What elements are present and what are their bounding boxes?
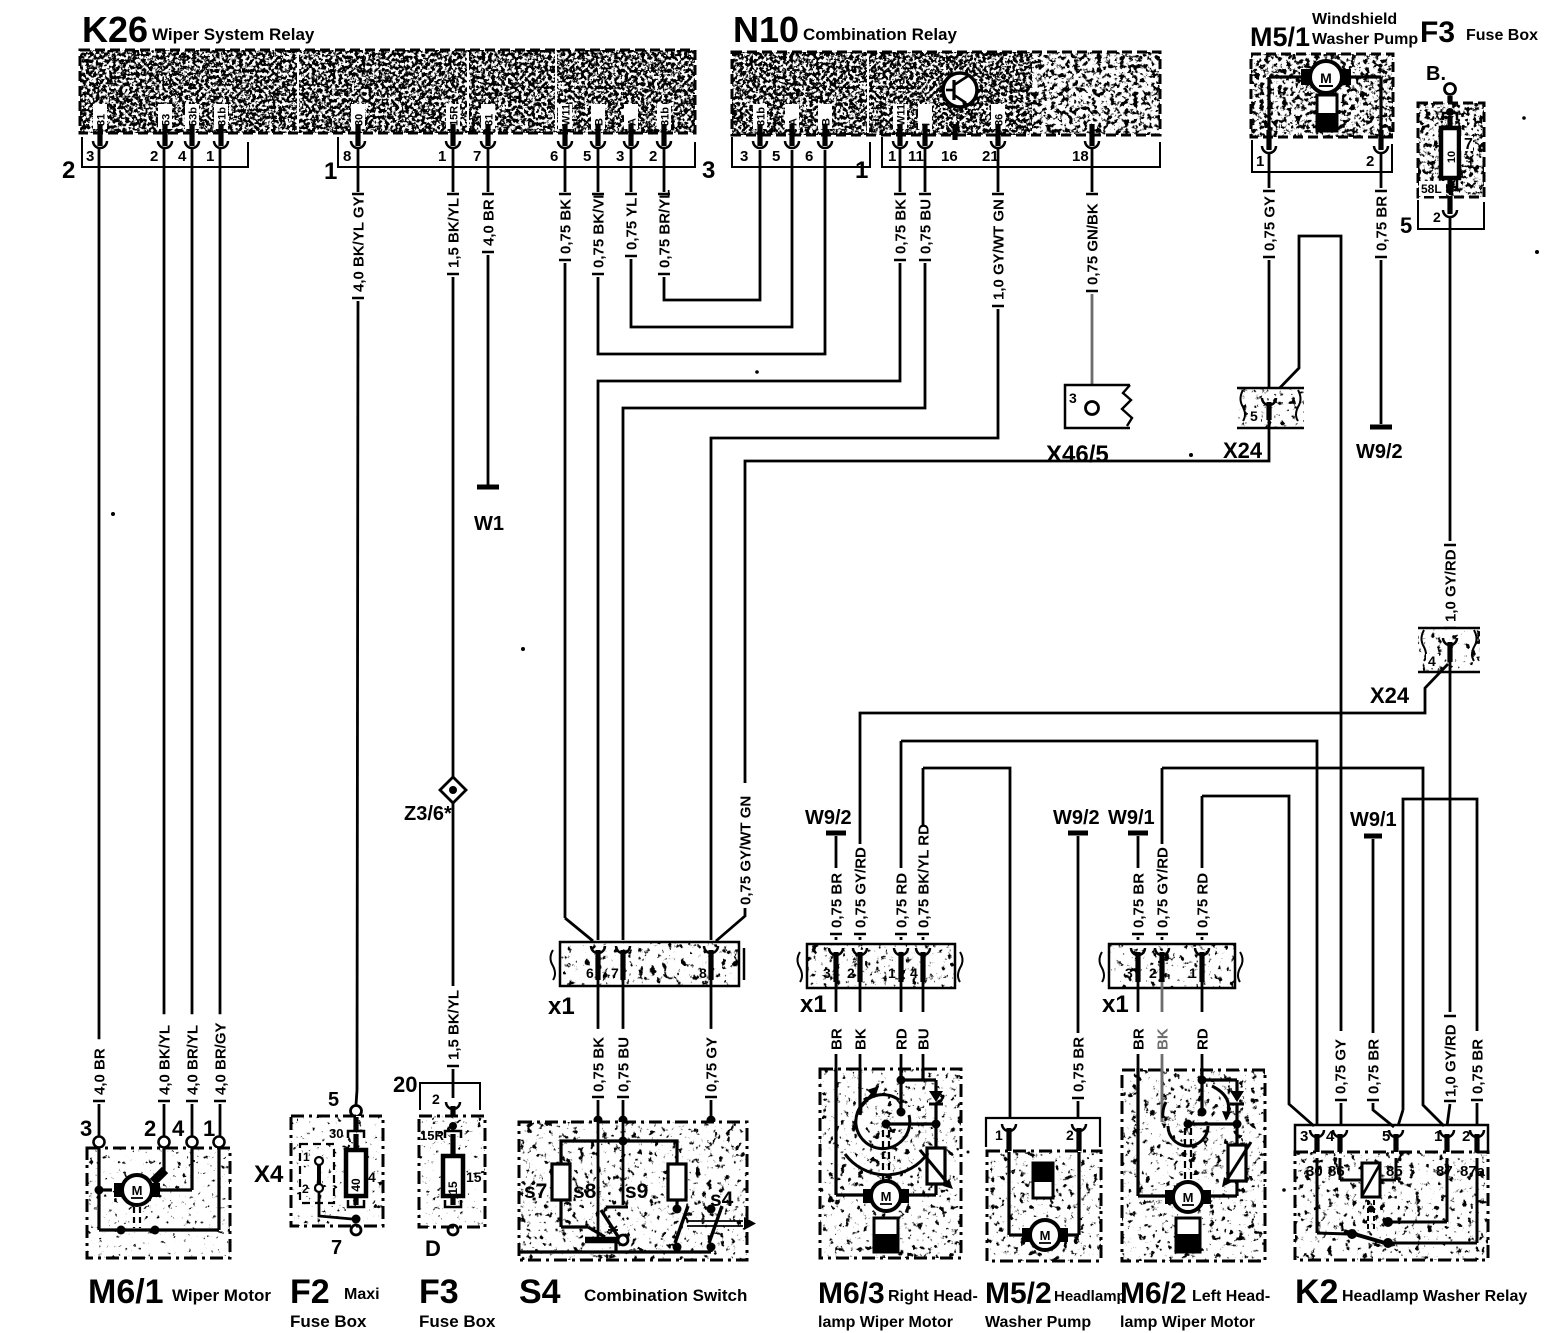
svg-text:W9/1: W9/1 [1350, 809, 1397, 831]
svg-text:Combination Switch: Combination Switch [584, 1286, 747, 1305]
headlamp wiper motor M6/2 body [1122, 1070, 1265, 1261]
svg-text:0,75 YL: 0,75 YL [624, 198, 641, 250]
wire 4,0 BK/YL GY K26 pin 8 to maxi fuse box F2 [351, 148, 368, 1105]
wire 1,5 BK/YL K26 pin 1 to fuse box F3 [446, 148, 463, 779]
motor shaft M6/3 [883, 1130, 889, 1180]
motor symbol M6/1 [114, 1170, 165, 1228]
svg-text:D: D [425, 1236, 441, 1261]
wiper track arc in M6/2 [1163, 1102, 1208, 1146]
svg-text:X4: X4 [254, 1161, 284, 1188]
svg-text:s8: s8 [573, 1180, 597, 1203]
relay N10 pin terminal I [918, 104, 933, 148]
relay K26 pin terminal 30 [351, 104, 366, 148]
svg-text:M: M [132, 1183, 143, 1198]
svg-text:M: M [1320, 70, 1332, 86]
wire 0,75 GY connector x1 into switch S4 [704, 980, 721, 1125]
svg-text:RD: RD [1195, 1028, 1212, 1050]
relay K2 pin 1 terminal [1440, 1130, 1454, 1158]
transistor symbol inside N10 [943, 70, 977, 110]
svg-text:F2: F2 [290, 1273, 330, 1311]
component label F3 [419, 1273, 496, 1331]
connector X24 pin 4 [1418, 628, 1480, 672]
wire relay K2 pin 5 to pin 2 loop [1398, 799, 1487, 1126]
svg-text:M: M [1040, 1228, 1051, 1243]
relay K2 armature link [1368, 1200, 1375, 1230]
svg-text:4,0 BK/YL: 4,0 BK/YL [157, 1025, 174, 1095]
connector x1 (M6/2) pin 2 terminal [1149, 948, 1169, 982]
svg-text:5: 5 [1250, 408, 1258, 424]
wire RD connector x1 into motor M6/2 [1195, 982, 1212, 1068]
relay K2 terminal labels [1306, 1163, 1486, 1180]
stray scan marks [111, 116, 1539, 1192]
switch S4 internal top rail [561, 1137, 677, 1165]
ground W1 [474, 487, 504, 535]
relay K26 pin terminal A [624, 104, 639, 148]
svg-text:1: 1 [206, 148, 214, 165]
svg-text:W9/2: W9/2 [1356, 441, 1403, 463]
connector x1 (S4) pin 8 terminal [699, 946, 718, 981]
svg-text:2: 2 [1366, 153, 1374, 170]
svg-text:3: 3 [86, 148, 94, 165]
relay K2 coil [1340, 1158, 1396, 1197]
relay K2 pin 5 terminal [1389, 1130, 1403, 1158]
motor M6/3 wiper contact BK [860, 1068, 879, 1108]
svg-text:3: 3 [823, 965, 831, 981]
relay K26 pin terminal 31b [657, 104, 672, 148]
fuse box F3 (bottom) body [419, 1116, 485, 1227]
wire 0,75 BR ground to connector x1 M6/3 pin 3 [829, 873, 846, 940]
svg-text:M6/1: M6/1 [88, 1273, 164, 1311]
motor M6/2 internal wiring RD [1198, 1068, 1238, 1117]
svg-text:2: 2 [144, 1116, 156, 1141]
svg-text:0,75 BR/YL: 0,75 BR/YL [657, 190, 674, 268]
svg-text:15: 15 [466, 1169, 482, 1185]
svg-text:0,75 GY: 0,75 GY [1333, 1039, 1350, 1094]
svg-text:Left Head-: Left Head- [1192, 1288, 1270, 1305]
svg-text:4: 4 [910, 965, 918, 981]
svg-text:M6/2: M6/2 [1120, 1277, 1187, 1310]
svg-text:53b: 53b [188, 107, 200, 126]
component label M6/1 [88, 1273, 271, 1311]
svg-text:x1: x1 [548, 993, 575, 1020]
wiper motor M6/1 internal wiring [95, 1148, 220, 1235]
connector x1 (M6/3) pin 3 terminal [823, 948, 843, 982]
ground W9/2 at M6/3 [805, 807, 852, 868]
svg-text:W11: W11 [561, 104, 573, 126]
washer pump M5/2 internal wiring [1009, 1152, 1079, 1235]
svg-text:K26: K26 [82, 9, 148, 50]
wire 4,0 BK/YL K26 to wiper motor M6/1 pin 2 [157, 148, 174, 1136]
svg-text:1: 1 [324, 158, 337, 185]
relay K2 pin 4 terminal [1333, 1130, 1347, 1158]
fuse box F3 connector bracket 20 [393, 1072, 480, 1110]
wire BK connector x1 into motor M6/3 [853, 982, 870, 1068]
relay K2 pin 2 terminal [1470, 1130, 1484, 1158]
wire 1,0 GY/WT GN N10 pin 21 to connector x1 pin 8 [711, 148, 1008, 940]
svg-text:4,0 BR/YL: 4,0 BR/YL [185, 1025, 202, 1095]
motor M6/3 internal wiring BR [836, 1068, 863, 1195]
svg-text:lamp Wiper Motor: lamp Wiper Motor [1120, 1314, 1255, 1331]
wire 4,0 BR K26 to wiper motor M6/1 pin 3 [92, 148, 109, 1136]
component label F2 [290, 1273, 380, 1331]
svg-text:Windshield: Windshield [1312, 11, 1397, 28]
svg-text:Headlamp: Headlamp [1054, 1288, 1126, 1305]
svg-text:BR: BR [1131, 1028, 1148, 1050]
connector X4 in F2 [300, 1144, 352, 1219]
component label M6/2 [1120, 1277, 1270, 1331]
svg-text:Fuse Box: Fuse Box [290, 1312, 367, 1331]
switch s4 actuating link arrow [687, 1217, 756, 1230]
connector x1 (M6/2) pin 1 terminal [1189, 948, 1209, 982]
wire 0,75 BR/YL K26 pin 2 to N10 pin 3 [657, 148, 761, 300]
rheostat in M6/2 [1211, 1142, 1251, 1196]
svg-text:BR: BR [829, 1028, 846, 1050]
svg-text:0,75 GY/RD: 0,75 GY/RD [1155, 847, 1172, 928]
svg-text:M: M [881, 1189, 892, 1204]
svg-text:Wiper System Relay: Wiper System Relay [152, 25, 315, 44]
svg-text:2: 2 [1433, 209, 1441, 225]
wire 0,75 BK N10 pin 1 to connector x1 pin 6 [598, 148, 910, 940]
svg-text:X24: X24 [1370, 683, 1410, 708]
svg-text:1: 1 [1189, 965, 1197, 981]
motor M6/2 wiper contact BK [1161, 1068, 1164, 1122]
svg-text:s7: s7 [524, 1180, 547, 1203]
relay N10 pin 16 stub [952, 124, 957, 140]
svg-text:lamp Wiper Motor: lamp Wiper Motor [818, 1314, 953, 1331]
svg-text:40: 40 [349, 1178, 363, 1192]
connector x1 (M6/3) pin 2 terminal [847, 948, 867, 982]
svg-text:15R: 15R [449, 106, 461, 126]
terminal B of fuse box F3 [1426, 63, 1456, 112]
svg-text:0,75 GY: 0,75 GY [1262, 196, 1279, 251]
wire 0,75 BK K26 pin 6 to connector x1 pin 6 [558, 148, 594, 941]
wire 0,75 BR ground to washer pump M5/2 pin 2 [1071, 1037, 1088, 1118]
svg-text:31b: 31b [756, 107, 768, 126]
wire 0,75 BK/VI K26 pin 5 to N10 pin 6 [591, 148, 826, 354]
wire 0,75 BU connector x1 into switch S4 [616, 980, 633, 1125]
svg-text:0,75 BR: 0,75 BR [1071, 1037, 1088, 1092]
svg-text:0,75 BR: 0,75 BR [1366, 1039, 1383, 1094]
relay K2 pin 3 terminal [1310, 1130, 1324, 1158]
svg-text:M5/1: M5/1 [1250, 22, 1310, 52]
wire 0,75 GY M5/1 pin 1 to connector X24 pin 5 [1262, 152, 1279, 394]
motor symbol M5/2 [1022, 1220, 1068, 1250]
component label S4 [519, 1273, 747, 1311]
relay K2 body [1295, 1152, 1488, 1260]
maxi fuse box F2 body [291, 1116, 383, 1226]
svg-text:0,75 GY/WT GN: 0,75 GY/WT GN [738, 796, 755, 905]
svg-text:0,75 BK: 0,75 BK [893, 199, 910, 254]
component label K2 [1295, 1273, 1527, 1311]
svg-text:0,75 BU: 0,75 BU [616, 1037, 633, 1092]
wire 0,75 BU inside S4 to wiper arm s9 [622, 1120, 625, 1205]
motor M6/2 diode branch [1184, 1080, 1245, 1145]
svg-text:W1: W1 [474, 513, 504, 535]
pump symbol M6/2 [1176, 1218, 1200, 1252]
connector X46/5 [1065, 385, 1132, 428]
svg-text:M6/3: M6/3 [818, 1277, 885, 1310]
svg-text:2: 2 [649, 148, 657, 165]
svg-text:87: 87 [1436, 1163, 1453, 1180]
svg-text:BU: BU [916, 1028, 933, 1050]
svg-text:2: 2 [150, 148, 158, 165]
wire 4,0 BR/GY K26 to wiper motor M6/1 pin 1 [213, 148, 230, 1136]
curved arrow in M6/2 [1212, 1086, 1231, 1121]
svg-text:1: 1 [855, 157, 868, 184]
washer pump M5/1 body [1251, 54, 1393, 137]
svg-text:W11: W11 [896, 104, 908, 126]
svg-text:0,75 GY: 0,75 GY [704, 1037, 721, 1092]
svg-text:BK: BK [1155, 1028, 1172, 1050]
relay N10 pin 18 terminal [1085, 124, 1099, 148]
rheostat in M6/3 [909, 1148, 953, 1195]
svg-text:4,0 BR: 4,0 BR [481, 199, 498, 246]
svg-text:X46/5: X46/5 [1046, 441, 1109, 468]
wire 0,75 RD connector x1 M6/3 pin 1 to relay K2 pin 3 [894, 741, 1318, 1126]
svg-text:1,0 GY/RD: 1,0 GY/RD [1443, 1024, 1460, 1097]
relay K26 pin terminal 15R [446, 104, 461, 148]
svg-text:4,0 BK/YL GY: 4,0 BK/YL GY [351, 196, 368, 292]
svg-text:8: 8 [699, 965, 707, 981]
switch labels s7 s8 s9 [524, 1180, 648, 1203]
svg-text:RD: RD [894, 1028, 911, 1050]
svg-text:F3: F3 [419, 1273, 459, 1311]
svg-text:0,75 RD: 0,75 RD [894, 873, 911, 928]
svg-text:7: 7 [1464, 136, 1473, 153]
svg-text:7: 7 [331, 1237, 342, 1259]
maxi fuse box F2 terminal 5 [328, 1089, 362, 1117]
svg-text:30: 30 [1306, 1163, 1323, 1180]
fuse 15A in fuse box F3 [420, 1122, 482, 1235]
svg-text:6: 6 [586, 965, 594, 981]
wire 0,75 BK inside S4 to wiper contact [597, 1120, 600, 1238]
svg-text:30: 30 [329, 1126, 343, 1141]
svg-text:1,5 BK/YL: 1,5 BK/YL [446, 198, 463, 268]
svg-text:15: 15 [446, 1181, 460, 1195]
svg-text:3: 3 [702, 157, 715, 184]
svg-text:2: 2 [432, 1091, 440, 1107]
svg-text:5: 5 [772, 148, 780, 165]
wire 0,75 GY/RD connector x1 M6/2 pin 2 to relay K2 pin 1 [1155, 768, 1445, 1126]
svg-text:Right Head-: Right Head- [888, 1288, 978, 1305]
relay K26 body [80, 50, 695, 133]
svg-text:2: 2 [1149, 965, 1157, 981]
wire 1,0 GY/RD X24 pin 4 to relay K2 pin 1 [1443, 662, 1460, 1126]
wire 0,75 BR M5/1 pin 2 to ground W9/2 [1374, 152, 1391, 424]
svg-text:W9/1: W9/1 [1108, 807, 1155, 829]
svg-text:S4: S4 [519, 1273, 561, 1311]
svg-text:31b: 31b [660, 107, 672, 126]
pump symbol M6/3 [874, 1218, 898, 1252]
ground W9/2 (right) [1356, 427, 1403, 463]
relay K2 switch [1317, 1158, 1477, 1248]
pump symbol M5/2 [1033, 1163, 1053, 1198]
svg-text:0,75 BR: 0,75 BR [829, 873, 846, 928]
ground W9/1 at M6/2 [1108, 807, 1155, 868]
connector x1 (M6/2) pin 3 terminal [1125, 948, 1145, 982]
svg-text:1,0 GY/WT GN: 1,0 GY/WT GN [991, 199, 1008, 300]
svg-text:8: 8 [343, 148, 351, 165]
relay K26 pin terminal W11 [558, 104, 573, 148]
wire 0,75 BU N10 pin 11 to connector x1 pin 7 [623, 148, 935, 940]
svg-text:F3: F3 [1420, 16, 1455, 49]
relay K26 pin terminal B [591, 104, 606, 148]
wire Z3/6 down to fuse box F3 pin 2 [446, 801, 463, 1098]
svg-text:86: 86 [1328, 1163, 1345, 1180]
motor M6/3 internal wiring BU with diode [882, 1068, 944, 1148]
relay K2 connector strip [1295, 1125, 1488, 1152]
svg-text:21: 21 [982, 148, 999, 165]
svg-text:4: 4 [172, 1116, 185, 1141]
windshield washer pump M5/1 label [1250, 11, 1418, 52]
connector x1 (S4) pin 7 terminal [611, 946, 630, 981]
wire 0,75 BR ground W9/1 to relay K2 pin 5 [1366, 1039, 1395, 1127]
svg-text:2: 2 [302, 1182, 309, 1196]
relay K26 pin terminal 31 [93, 104, 108, 148]
svg-text:N10: N10 [733, 9, 799, 50]
svg-text:5: 5 [583, 148, 591, 165]
svg-text:0,75 GY/RD: 0,75 GY/RD [853, 847, 870, 928]
svg-text:K2: K2 [1295, 1273, 1338, 1311]
svg-text:4: 4 [1428, 653, 1436, 669]
connector bracket K26-2 [82, 137, 248, 167]
svg-text:Z3/6*: Z3/6* [404, 803, 452, 825]
svg-text:4,0 BR/GY: 4,0 BR/GY [213, 1022, 230, 1095]
relay N10 pin terminal B [818, 104, 833, 148]
washer pump M5/2 pin 2 terminal [1072, 1124, 1086, 1152]
svg-text:W9/2: W9/2 [1053, 807, 1100, 829]
relay K26 pin terminal 53 [158, 104, 173, 148]
washer pump M5/1 pin 1 terminal [1262, 130, 1276, 153]
svg-text:X24: X24 [1223, 438, 1263, 463]
wire BR connector x1 into motor M6/2 [1131, 982, 1148, 1068]
svg-text:1: 1 [438, 148, 446, 165]
wiper motor M6/1 body [87, 1148, 230, 1258]
svg-text:Maxi: Maxi [344, 1286, 380, 1303]
washer pump M5/1 pin 2 terminal [1374, 130, 1388, 153]
pin 58L label in fuse box F3 [1419, 181, 1446, 196]
svg-text:Fuse Box: Fuse Box [1466, 27, 1538, 44]
connector bracket K26-1 [338, 137, 695, 167]
svg-text:Combination Relay: Combination Relay [803, 25, 958, 44]
wire 1,0 GY/RD X24 pin 4 to connector x1 pin 2 of M6/3 [853, 664, 1449, 940]
relay N10 pin terminal 31b [753, 104, 768, 148]
svg-text:x1: x1 [1102, 991, 1129, 1018]
washer pump M5/2 pin 1 terminal [1002, 1124, 1016, 1152]
svg-text:58L: 58L [1421, 182, 1442, 196]
wire 0,75 GY/WT GN X24 pin 5 to connector x1 pin 8 [716, 420, 1269, 941]
svg-text:0,75 BK: 0,75 BK [558, 199, 575, 254]
svg-text:x1: x1 [800, 991, 827, 1018]
svg-text:Headlamp Washer Relay: Headlamp Washer Relay [1342, 1288, 1527, 1305]
motor symbol M6/2 [1165, 1182, 1211, 1212]
wire 0,75 GY X24 pin 5 branch to relay K2 pin 4 [1272, 236, 1350, 1126]
svg-text:Washer Pump: Washer Pump [1312, 31, 1418, 48]
svg-text:5: 5 [1400, 213, 1412, 238]
svg-text:M: M [1183, 1190, 1194, 1205]
svg-text:BK: BK [853, 1028, 870, 1050]
svg-text:3: 3 [616, 148, 624, 165]
svg-text:W9/2: W9/2 [805, 807, 852, 829]
connector bracket N10-1 [882, 137, 1160, 167]
connector x1 (M6/3) pin 4 terminal [910, 948, 930, 982]
wire 4,0 BR K26 pin 7 to ground W1 [481, 148, 498, 485]
svg-text:0,75 BU: 0,75 BU [918, 199, 935, 254]
svg-text:6: 6 [805, 148, 813, 165]
motor M6/3 internal wiring RD [897, 1068, 937, 1117]
wiper track arcs in M6/3 [845, 1095, 928, 1175]
svg-text:0,75 BR: 0,75 BR [1131, 873, 1148, 928]
switch s4 contact pair [673, 1205, 723, 1252]
fuse 40A in maxi fuse box F2 [329, 1117, 376, 1235]
svg-text:0,75 BK/YL RD: 0,75 BK/YL RD [916, 824, 933, 928]
svg-text:1: 1 [888, 965, 896, 981]
relay N10 pin terminal 86 [991, 104, 1006, 148]
fuse box F3 pin 2 terminal [1443, 196, 1457, 217]
wire 0,75 BK/YL RD connector x1 M6/3 pin 4 to washer pump M5/2 pin 1 [916, 768, 1011, 1118]
svg-text:Washer Pump: Washer Pump [985, 1314, 1091, 1331]
wire BU connector x1 into motor M6/3 [916, 982, 933, 1068]
fuse 7 (10A) in fuse box F3 [1441, 108, 1473, 194]
wire RD connector x1 into motor M6/3 [894, 982, 911, 1068]
connector x1 (M6/3) body [798, 944, 963, 988]
svg-text:4: 4 [368, 1169, 376, 1185]
connector X24 pin 5 [1237, 388, 1304, 428]
svg-text:1: 1 [1256, 153, 1264, 170]
relay K26 pin terminal 53b [185, 104, 200, 148]
svg-text:4: 4 [178, 148, 187, 165]
svg-text:3: 3 [740, 148, 748, 165]
wire 0,75 RD connector x1 M6/2 pin 1 to relay K2 pin 3 [1195, 796, 1315, 1126]
svg-text:11: 11 [908, 148, 924, 165]
wire 0,75 GN/BK N10 pin 18 to connector X46/5 [1085, 148, 1102, 401]
svg-text:Wiper Motor: Wiper Motor [172, 1286, 271, 1305]
svg-text:3: 3 [80, 1116, 92, 1141]
combination switch S4 body [519, 1122, 747, 1260]
svg-text:3: 3 [1300, 1128, 1308, 1145]
wiper motor M6/1 pin circles [80, 1116, 225, 1148]
svg-text:87a: 87a [1460, 1163, 1486, 1180]
svg-text:7: 7 [473, 148, 481, 165]
svg-text:15R: 15R [420, 1128, 444, 1143]
svg-text:16: 16 [941, 148, 958, 165]
svg-text:5: 5 [328, 1089, 339, 1111]
svg-text:1,0 GY/RD: 1,0 GY/RD [1443, 549, 1460, 622]
motor symbol M5/1 [1269, 61, 1381, 137]
fuse box F3 (top) label [1420, 16, 1538, 49]
wire BR connector x1 into motor M6/3 [829, 982, 846, 1068]
svg-text:0,75 BK: 0,75 BK [591, 1037, 608, 1092]
svg-text:0,75 BK/VI: 0,75 BK/VI [591, 195, 608, 268]
connector bracket N10-3 [732, 137, 870, 167]
wire 1,0 GY/RD fuse box F3 to connector X24 pin 4 [1443, 217, 1460, 635]
ground W9/1 at K2 [1350, 809, 1397, 1033]
component label M6/3 [818, 1277, 978, 1331]
connector x1 (S4) pin 6 terminal [586, 946, 605, 981]
svg-text:1: 1 [303, 1150, 310, 1164]
motor symbol M6/3 [863, 1181, 909, 1211]
svg-text:M5/2: M5/2 [985, 1277, 1052, 1310]
ground W9/2 at M5/2 [1053, 807, 1100, 1033]
svg-text:0,75 BR: 0,75 BR [1374, 196, 1391, 251]
svg-text:0,75 GN/BK: 0,75 GN/BK [1085, 203, 1102, 285]
relay N10 pin terminal W11 [893, 104, 908, 148]
motor M6/2 internal wiring BR [1138, 1068, 1165, 1196]
svg-text:1: 1 [888, 148, 896, 165]
relay N10 body [732, 52, 1160, 135]
connector x1 (S4) body [551, 942, 745, 986]
headlamp wiper motor M6/3 body [820, 1069, 961, 1258]
